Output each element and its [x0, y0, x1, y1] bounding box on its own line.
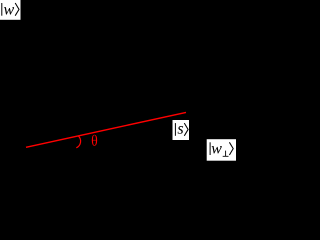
node |w> : vertical-axis label, top-left [0, 0, 21, 20]
angle arc between |s> line and horizontal axis [76, 136, 80, 148]
node |w_perp> : horizontal-axis label [207, 139, 236, 161]
node |s> : state label [173, 120, 190, 140]
theta label [92, 135, 97, 146]
wire: red state-vector line for |s> [26, 112, 186, 147]
